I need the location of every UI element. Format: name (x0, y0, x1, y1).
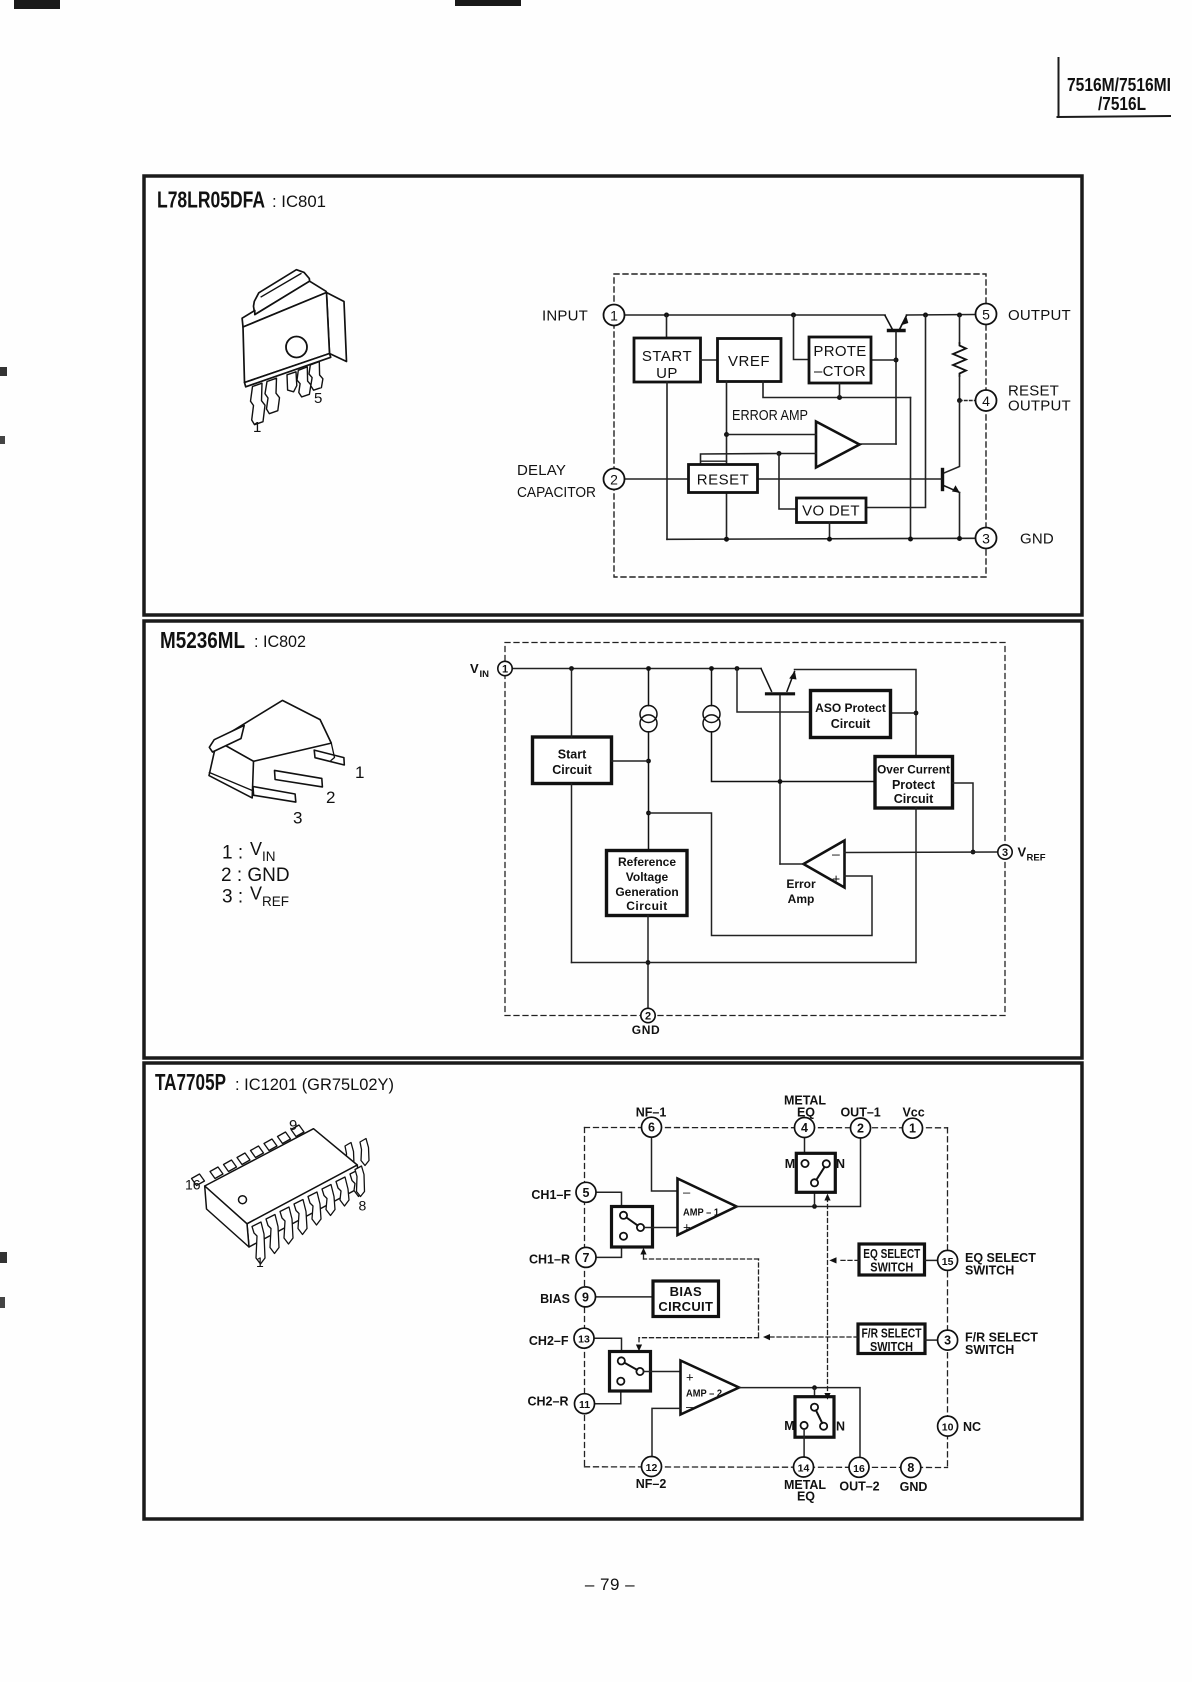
wire reference box bottom to gnd (647, 916, 649, 1009)
svg-text:: IC801: : IC801 (272, 192, 326, 211)
svg-text:: IC802: : IC802 (254, 632, 306, 651)
svg-text:Amp: Amp (788, 892, 815, 906)
wire minus input to pin3 (845, 851, 999, 854)
svg-text:F/R SELECT: F/R SELECT (862, 1327, 922, 1341)
pin 5 CH1-F (531, 1182, 596, 1202)
svg-text:2: 2 (857, 1122, 864, 1136)
package DIP-16 top pins (192, 1125, 305, 1186)
pin 5 OUTPUT (976, 304, 1071, 325)
block ASO protect circuit (811, 691, 891, 738)
scan noise top-left (14, 0, 521, 9)
wire rail to protector left (794, 315, 810, 360)
wire vodet bottom drop (829, 523, 831, 540)
current source I1 (640, 669, 657, 851)
switch M/N B metal eq ch2 (784, 1397, 845, 1438)
svg-text:CH1–R: CH1–R (529, 1253, 570, 1267)
switch S1 ch1 F/R selector (612, 1207, 653, 1248)
section frame L78LR05DFA (144, 176, 1082, 615)
wire right drop to gnd rail (910, 398, 912, 540)
pin 7 CH1-R (529, 1247, 596, 1267)
svg-text:CH1–F: CH1–F (531, 1188, 571, 1202)
wire Q2 emitter to gnd rail (959, 493, 961, 539)
wire rail to resistor (959, 315, 961, 343)
arrow eq up into switch A (824, 1194, 830, 1201)
svg-text:DELAY: DELAY (517, 462, 566, 479)
svg-text:TA7705P: TA7705P (155, 1069, 226, 1095)
svg-text:+: + (686, 1370, 694, 1385)
wire aso left link (737, 669, 811, 713)
wire resistor to node4 (959, 376, 961, 401)
svg-text:/7516L: /7516L (1098, 94, 1146, 114)
svg-text:5: 5 (982, 307, 990, 323)
wire erroramp minus input (779, 453, 816, 455)
IC801 block diagram dashed boundary (614, 274, 986, 577)
IC1201 dashed boundary top (585, 1127, 948, 1129)
svg-text:GND: GND (900, 1480, 928, 1494)
svg-text:–: – (683, 1185, 691, 1200)
svg-text:–: – (686, 1399, 694, 1414)
wire startup-vref (701, 359, 718, 361)
svg-text:GND: GND (1020, 531, 1054, 548)
svg-text:3: 3 (944, 1334, 951, 1348)
block over current protect circuit (875, 757, 953, 809)
svg-text:V: V (250, 884, 262, 904)
wire pin9 to bias (593, 1296, 653, 1298)
wire M/N B to pin14 (803, 1429, 805, 1457)
block start circuit (533, 737, 612, 784)
node rail-cs1 (646, 666, 651, 671)
wire vin rail (512, 668, 761, 670)
svg-text:CIRCUIT: CIRCUIT (658, 1299, 713, 1314)
node reset output junction (957, 398, 962, 403)
svg-text:1: 1 (502, 664, 508, 676)
wire S1 to amp1 plus (644, 1227, 677, 1229)
block RESET (689, 465, 758, 493)
pin list 3 VREF (222, 884, 289, 910)
svg-text:Vcc: Vcc (902, 1106, 924, 1120)
svg-text:REF: REF (262, 894, 289, 909)
svg-text:8: 8 (359, 1198, 367, 1214)
wire node to pin4 dotted (960, 400, 976, 402)
block F/R SELECT SWITCH (858, 1324, 925, 1354)
op-amp error amp IC802 (804, 841, 845, 888)
node rail-resistor (957, 313, 962, 318)
wire pin11 to switch S2 (592, 1391, 621, 1404)
svg-text:BIAS: BIAS (540, 1292, 570, 1306)
svg-text:SWITCH: SWITCH (965, 1264, 1014, 1278)
pin list 1 VIN (222, 839, 276, 864)
svg-text:EQ: EQ (797, 1106, 815, 1120)
svg-text:AMP – 1: AMP – 1 (683, 1207, 719, 1219)
wire pin5 to switch S1 (593, 1192, 622, 1207)
node aso right (914, 711, 919, 716)
pin 15 EQ SELECT SWITCH (938, 1250, 1037, 1277)
pin 2 GND (632, 1008, 660, 1037)
section frame TA7705P (144, 1063, 1082, 1519)
IC1201 dashed boundary left (584, 1128, 586, 1467)
svg-text:5: 5 (583, 1186, 590, 1200)
IC1201 dashed boundary bottom (585, 1466, 948, 1469)
wire start top (571, 669, 573, 738)
current source I2 (703, 669, 875, 782)
svg-text:M: M (785, 1157, 795, 1171)
wire protector bottom drop (839, 383, 841, 398)
pin 1 INPUT (542, 305, 625, 326)
block PROTECTOR (809, 337, 871, 383)
node amp2out-switch (812, 1385, 817, 1390)
pin 13 CH2-F (529, 1328, 594, 1348)
wire start bottom to gnd return (571, 784, 573, 963)
wire amp2 output to pin16 (739, 1388, 860, 1458)
wire input rail left (625, 314, 886, 316)
node rail-vodet (923, 313, 928, 318)
node amp1out-switch (812, 1204, 817, 1209)
svg-text:NF–2: NF–2 (636, 1477, 667, 1491)
op-amp AMP-1 (678, 1179, 737, 1236)
pin 6 NF-1 (636, 1106, 667, 1138)
arrow f/r up into S1 (640, 1248, 646, 1255)
wire Q1 base down (895, 332, 897, 444)
svg-text:PROTE: PROTE (813, 343, 866, 360)
wire gnd rail (667, 538, 976, 539)
svg-text:M5236ML: M5236ML (160, 627, 245, 653)
node rail-cs2 (709, 666, 714, 671)
svg-text:1: 1 (355, 763, 364, 782)
section title TA7705P : IC1201 (GR75L02Y) (155, 1069, 394, 1095)
wire startup bottom to gnd rail (666, 382, 668, 539)
pin 3 VREF (998, 845, 1046, 864)
svg-text:SWITCH: SWITCH (870, 1261, 913, 1275)
wire node down to vo det left (779, 454, 797, 510)
svg-text:Error: Error (786, 877, 816, 891)
wire eq select to pin15 (925, 1259, 938, 1261)
header model rule (1058, 58, 1171, 117)
wire reset top second link (702, 460, 727, 462)
pin 11 CH2-R (528, 1394, 595, 1414)
svg-text:INPUT: INPUT (542, 308, 588, 325)
scan noise left edge ticks (0, 367, 7, 1308)
svg-text:3: 3 (293, 809, 302, 828)
svg-text:10: 10 (942, 1422, 954, 1434)
node protector bottom (837, 395, 842, 400)
svg-text:ASO Protect: ASO Protect (815, 701, 886, 715)
svg-text:START: START (642, 348, 692, 365)
svg-text:14: 14 (798, 1463, 810, 1475)
package DIP-16 IC1201 drawing (205, 1129, 359, 1247)
wire start right (612, 760, 649, 762)
svg-text:BIAS: BIAS (670, 1284, 702, 1299)
package TO-252 IC801 drawing (242, 270, 346, 387)
svg-text:Voltage: Voltage (626, 870, 669, 884)
svg-text:12: 12 (646, 1462, 658, 1474)
wire f/r select to pin3 (925, 1339, 938, 1341)
svg-text:8: 8 (907, 1461, 914, 1475)
svg-text:–: – (832, 846, 840, 862)
svg-text:M: M (784, 1419, 794, 1433)
svg-text:– 79 –: – 79 – (585, 1575, 635, 1594)
svg-text:1: 1 (256, 1254, 264, 1270)
wire pin6 to amp1 minus (652, 1138, 678, 1192)
pin 1 VIN (470, 661, 512, 680)
pin 3 GND (976, 528, 1054, 549)
dashed eq control line (828, 1198, 860, 1394)
block EQ SELECT SWITCH (859, 1244, 925, 1275)
op-amp error amp (816, 422, 860, 468)
block BIAS CIRCUIT (653, 1281, 719, 1317)
wire overcurrent right to vref line (953, 783, 974, 852)
svg-text:CH2–R: CH2–R (528, 1395, 569, 1409)
wire pin4 down to M/N switch A (804, 1138, 806, 1161)
transistor Q2 NPN (943, 470, 960, 493)
pin 16 OUT-2 (839, 1457, 879, 1493)
wire rail right of Q3 (795, 670, 917, 757)
svg-text:SWITCH: SWITCH (965, 1343, 1014, 1357)
svg-text:1 :: 1 : (222, 843, 243, 864)
svg-text:OUTPUT: OUTPUT (1008, 307, 1071, 324)
switch S2 ch2 F/R selector (610, 1352, 651, 1392)
svg-text:7: 7 (583, 1251, 590, 1265)
svg-text:V: V (470, 661, 479, 676)
section title L78LR05DFA : IC801 (157, 187, 326, 213)
node cs1-start (646, 759, 651, 764)
pin 4 RESET OUTPUT (976, 383, 1071, 415)
IC802 block diagram dashed boundary (505, 643, 1005, 1016)
wire node up to M/N switch A (814, 1187, 816, 1207)
svg-text:2: 2 (326, 788, 335, 807)
svg-text:1: 1 (909, 1122, 916, 1136)
wire node down to M/N switch B (814, 1388, 816, 1404)
wire rail to vo det right side (866, 315, 926, 508)
svg-text:OUTPUT: OUTPUT (1008, 398, 1071, 415)
section title M5236ML : IC802 (160, 627, 306, 653)
svg-text:Circuit: Circuit (626, 899, 668, 913)
pin 9 BIAS (540, 1287, 595, 1307)
svg-text:Circuit: Circuit (894, 792, 934, 806)
wire vref right drop (763, 382, 911, 398)
wire S2 to amp2 plus (644, 1371, 681, 1373)
svg-text:1: 1 (253, 419, 261, 436)
package DIP-16 back row legs (345, 1139, 369, 1170)
svg-text:L78LR05DFA: L78LR05DFA (157, 187, 265, 213)
wire pin12 to amp2 minus (652, 1408, 681, 1456)
header model text 7516M/7516MI /7516L (1067, 75, 1171, 114)
pin 4 METAL EQ (784, 1094, 826, 1138)
svg-text:15: 15 (942, 1256, 954, 1268)
node gnd-q2 (957, 536, 962, 541)
svg-text:Protect: Protect (892, 778, 936, 792)
svg-text:V: V (250, 839, 262, 859)
switch M/N A metal eq ch1 (785, 1153, 845, 1192)
dashed f/r control line (639, 1252, 858, 1345)
svg-text:N: N (836, 1420, 845, 1434)
package DIP-16 front legs (252, 1170, 363, 1265)
wire plus input loop (649, 813, 873, 936)
pin 2 OUT-1 (840, 1106, 880, 1138)
svg-text:+: + (683, 1220, 691, 1235)
svg-text:VREF: VREF (728, 353, 770, 370)
wire Q2 base from reset (758, 478, 942, 480)
svg-text:–CTOR: –CTOR (814, 363, 866, 380)
svg-text:+: + (832, 871, 840, 887)
svg-text:CH2–F: CH2–F (529, 1334, 569, 1348)
svg-text:ERROR AMP: ERROR AMP (732, 408, 808, 424)
pin 12 NF-2 (636, 1457, 667, 1492)
block VREF (718, 339, 782, 382)
package DIP-16 right end legs (355, 1166, 365, 1197)
svg-text:NF–1: NF–1 (636, 1106, 667, 1120)
svg-text:3: 3 (982, 531, 990, 547)
wire input rail right (907, 314, 976, 317)
svg-text:OUT–2: OUT–2 (839, 1480, 879, 1494)
svg-text:11: 11 (579, 1399, 590, 1411)
svg-text:9: 9 (582, 1290, 589, 1304)
svg-text:GND: GND (632, 1023, 660, 1037)
svg-text:Circuit: Circuit (831, 717, 871, 731)
svg-text:REF: REF (1027, 853, 1046, 864)
pin 10 NC (938, 1416, 981, 1436)
node rail-startup (664, 313, 669, 318)
svg-text:Start: Start (558, 748, 587, 762)
svg-text:Over Current: Over Current (877, 763, 950, 777)
wire amp1 output to pin2 (737, 1138, 861, 1207)
wire rail to startup (666, 315, 668, 338)
arrow eq to vertical (829, 1257, 836, 1263)
package SOT-89 IC802 drawing (209, 700, 344, 802)
svg-text:AMP – 2: AMP – 2 (686, 1388, 722, 1400)
package IC801 leads (251, 362, 323, 425)
arrow f/r to vertical (763, 1334, 770, 1340)
svg-text:6: 6 (648, 1121, 655, 1135)
svg-text:Generation: Generation (615, 885, 678, 899)
svg-text:3: 3 (1002, 847, 1008, 859)
svg-text:16: 16 (185, 1177, 201, 1193)
node rail-protector (791, 313, 796, 318)
svg-text:2: 2 (610, 472, 618, 488)
svg-text:SWITCH: SWITCH (870, 1340, 913, 1354)
wire vref left drop to gnd rail (726, 382, 728, 540)
pin 8 GND (900, 1458, 928, 1495)
svg-text:9: 9 (289, 1117, 297, 1134)
arrow f/r down into S2 (636, 1345, 642, 1352)
block VO DET (797, 498, 867, 523)
pin 1 Vcc (902, 1106, 924, 1139)
svg-text:OUT–1: OUT–1 (840, 1106, 880, 1120)
node rail-start (569, 666, 574, 671)
transistor Q3 pass (761, 669, 797, 694)
svg-text:UP: UP (656, 365, 678, 382)
label error amp (786, 877, 816, 906)
svg-text:Reference: Reference (618, 855, 676, 869)
IC1201 dashed boundary right (947, 1128, 949, 1468)
wire pin7 to switch S1 (593, 1247, 622, 1258)
wire pin2 to reset (625, 478, 689, 480)
resistor R1 (953, 343, 966, 376)
svg-text:NC: NC (963, 1420, 981, 1434)
node vref-erroramp (724, 432, 729, 437)
svg-text:VO DET: VO DET (802, 503, 860, 520)
node gnd-rightdrop (908, 537, 913, 542)
block START UP (634, 338, 701, 382)
svg-text:RESET: RESET (697, 472, 750, 489)
block reference voltage generation circuit (607, 851, 688, 916)
pin 14 METAL EQ (784, 1457, 826, 1504)
svg-text:4: 4 (982, 393, 990, 409)
node rail-aso (735, 666, 740, 671)
svg-text:EQ SELECT: EQ SELECT (863, 1247, 920, 1261)
wire error amp output to base (859, 443, 897, 445)
wire error amp output (780, 863, 804, 865)
wire pin13 to switch S2 (591, 1338, 621, 1352)
wire erroramp plus input (727, 434, 817, 436)
wire Q3 base down to error amp output (779, 696, 781, 865)
pin 3 F/R SELECT SWITCH (938, 1330, 1039, 1357)
node vref junction (971, 850, 976, 855)
svg-text:CAPACITOR: CAPACITOR (517, 484, 596, 501)
svg-text:4: 4 (801, 1121, 808, 1135)
svg-text:1: 1 (610, 308, 618, 324)
pin 2 DELAY CAPACITOR (517, 462, 625, 501)
wire node4 down to Q2 collector (944, 401, 960, 474)
svg-text:5: 5 (314, 390, 322, 407)
wire protector to base (871, 359, 896, 361)
node cs1-plusline (646, 811, 651, 816)
node gnd-vodet (827, 537, 832, 542)
svg-text:V: V (1018, 845, 1027, 860)
svg-text:16: 16 (853, 1463, 865, 1475)
wire aso right link (891, 712, 917, 714)
svg-text:13: 13 (578, 1334, 590, 1346)
wire gnd return up to overcurrent bottom (915, 808, 917, 963)
svg-text:Circuit: Circuit (552, 763, 592, 777)
arrow eq down into switch B (824, 1393, 830, 1400)
svg-text:7516M/7516MI: 7516M/7516MI (1067, 75, 1171, 95)
svg-text:IN: IN (480, 669, 490, 680)
transistor Q1 pass PNP (885, 316, 908, 331)
node base-overcurrent line (778, 779, 783, 784)
svg-text:EQ: EQ (797, 1490, 815, 1504)
op-amp AMP-2 (681, 1361, 740, 1415)
svg-text:: IC1201 (GR75L02Y): : IC1201 (GR75L02Y) (235, 1075, 394, 1094)
svg-text:3 :: 3 : (222, 887, 243, 908)
node junction base-protector (894, 358, 899, 363)
wire gnd return horizontal (572, 962, 917, 964)
section frame M5236ML (144, 621, 1082, 1058)
wire reset top riser (701, 454, 780, 465)
svg-text:N: N (836, 1157, 845, 1171)
node reset-vodet-erroramp (777, 451, 782, 456)
node gnd-reference (646, 960, 651, 965)
svg-text:2: 2 (645, 1011, 651, 1023)
node gnd-vref (724, 537, 729, 542)
svg-text:IN: IN (262, 849, 276, 864)
